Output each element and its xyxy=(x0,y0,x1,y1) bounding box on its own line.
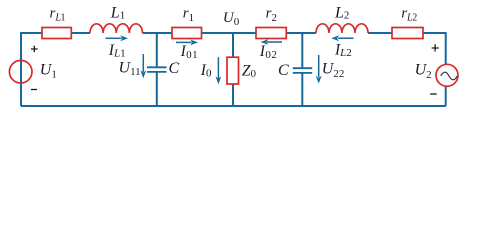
svg-text:IL1: IL1 xyxy=(108,42,126,60)
svg-text:C: C xyxy=(278,62,289,79)
svg-text:rL1: rL1 xyxy=(50,6,66,24)
svg-text:U2: U2 xyxy=(415,62,432,81)
svg-text:L1: L1 xyxy=(110,4,125,21)
svg-text:U11: U11 xyxy=(119,59,141,78)
svg-text:L2: L2 xyxy=(334,4,349,21)
svg-text:U0: U0 xyxy=(223,10,240,28)
svg-text:C: C xyxy=(169,60,180,77)
svg-text:U22: U22 xyxy=(322,61,345,80)
svg-text:r2: r2 xyxy=(266,6,277,24)
svg-text:I01: I01 xyxy=(180,43,199,61)
svg-text:I02: I02 xyxy=(259,43,278,61)
svg-text:rL2: rL2 xyxy=(401,6,417,24)
svg-text:r1: r1 xyxy=(183,6,194,24)
svg-text:Z0: Z0 xyxy=(242,62,257,80)
svg-text:U1: U1 xyxy=(40,62,57,81)
svg-text:I0: I0 xyxy=(200,62,212,80)
svg-text:IL2: IL2 xyxy=(334,42,352,60)
